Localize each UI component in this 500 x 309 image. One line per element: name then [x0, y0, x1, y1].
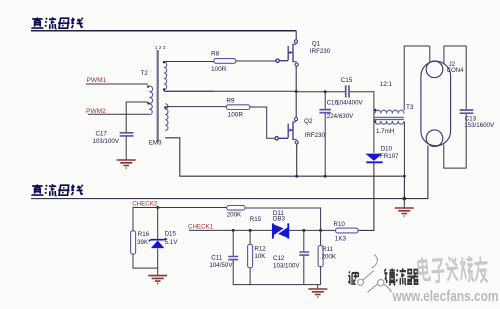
capacitor C17	[120, 133, 134, 136]
wire: bus drop to Q1 drain	[295, 31, 297, 40]
wire R9 to Q2 gate	[250, 107, 275, 138]
svg-text:T3: T3	[406, 104, 414, 111]
title DC bus (top) 直流母线	[31, 17, 82, 29]
wire T3 primary right up to lamp	[404, 46, 430, 110]
junction R11 top	[319, 229, 322, 232]
wire T3 secondary right down to rail	[403, 122, 405, 176]
lamp tube J2	[421, 61, 451, 146]
T2 primary winding lower (tap to PWM2)	[149, 104, 152, 115]
transistor Q2	[275, 121, 297, 140]
wire ground stub	[403, 199, 405, 208]
wire EM3 winding end to bottom rail	[165, 138, 404, 176]
wire D15 ground stub	[157, 268, 159, 275]
wire CHECK1	[189, 229, 336, 231]
T3 secondary winding	[375, 121, 404, 124]
pin dot T3 primary left	[374, 109, 376, 111]
svg-text:1K3: 1K3	[335, 235, 347, 242]
pin dot T2 feedback bottom	[163, 88, 165, 90]
wire lamp top-right lead to C13	[444, 46, 466, 109]
wire D10 cathode down to R10	[358, 163, 374, 230]
capacitor C11	[228, 257, 238, 260]
svg-text:R8: R8	[211, 51, 220, 58]
wire C11 to bottom	[233, 260, 320, 284]
svg-text:1.7mH: 1.7mH	[376, 128, 394, 135]
watermark 电子发烧友	[418, 256, 489, 283]
watermark logo circles	[355, 255, 391, 293]
junction R12	[249, 229, 252, 232]
wire C17 to ground	[125, 137, 127, 160]
diode D10 FR107	[365, 154, 382, 163]
junction C11	[232, 229, 235, 232]
wire R16 bottom	[133, 254, 158, 268]
svg-text:100R: 100R	[211, 66, 227, 73]
svg-text:5.1V: 5.1V	[165, 239, 179, 246]
svg-text:C12: C12	[273, 255, 285, 262]
svg-text:39K: 39K	[137, 239, 149, 246]
resistor R10	[336, 228, 358, 233]
svg-text:100R: 100R	[228, 112, 244, 119]
capacitor C16	[319, 110, 331, 113]
lamp filament bottom	[426, 130, 443, 147]
wire C16 drop	[324, 92, 326, 109]
svg-text:200K: 200K	[322, 254, 337, 261]
wire CHECK2	[133, 208, 321, 231]
svg-text:104/400V: 104/400V	[336, 99, 363, 106]
svg-text:IRF230: IRF230	[305, 132, 326, 139]
svg-text:224/630V: 224/630V	[327, 113, 354, 120]
junction Q2 source rail	[295, 175, 298, 178]
svg-text:C17: C17	[96, 130, 108, 137]
ground (bottom RC)	[308, 289, 327, 297]
svg-text:www.elecfans.com: www.elecfans.com	[392, 289, 499, 305]
T2 primary winding upper (PWM1 to tap)	[149, 86, 152, 103]
wire mid node line (T2 tap wire to C15)	[164, 90, 345, 93]
diac D11 DB3	[272, 223, 289, 238]
capacitor C12	[299, 252, 309, 255]
lamp filament top	[426, 61, 443, 78]
T2 drive winding (to R9)	[165, 104, 168, 131]
ground (lamp return)	[395, 208, 414, 216]
wire drive winding to R9	[166, 106, 226, 108]
svg-text:R15: R15	[250, 216, 262, 223]
transformer T2 core	[157, 50, 159, 142]
svg-text:FR107: FR107	[380, 153, 399, 160]
junction D15 tap	[156, 206, 159, 209]
T2 feedback winding (to R8)	[164, 62, 167, 90]
inductor T3 primary winding	[375, 110, 404, 113]
svg-text:R9: R9	[226, 98, 235, 105]
svg-text:C15: C15	[341, 77, 353, 84]
pin dot T2 primary top	[147, 85, 149, 87]
svg-text:1 2 3: 1 2 3	[155, 45, 166, 51]
junction rail T3	[403, 175, 406, 178]
ground (D15/R16)	[148, 276, 167, 284]
wire C15 to T3	[350, 92, 374, 153]
resistor R15 (200K)	[227, 206, 245, 211]
pin circle Q1 source	[295, 63, 298, 66]
svg-text:104/50V: 104/50V	[209, 262, 233, 269]
svg-text:CHECK2: CHECK2	[132, 200, 158, 207]
svg-text:200K: 200K	[227, 212, 242, 219]
junction C12	[302, 229, 305, 232]
transistor Q1	[276, 44, 297, 63]
svg-text:C11: C11	[211, 254, 222, 261]
svg-text:CON4: CON4	[447, 68, 464, 74]
pin dot T2 feedback top	[163, 61, 165, 63]
wire ground stub bottom	[317, 285, 319, 289]
wire: top DC bus line	[31, 30, 296, 32]
wire Q1 drain stub	[295, 43, 297, 44]
zener D15	[149, 208, 166, 269]
svg-text:103/100V: 103/100V	[273, 263, 300, 270]
resistor R9	[226, 105, 249, 110]
svg-text:R11: R11	[322, 246, 333, 253]
svg-text:103/100V: 103/100V	[93, 138, 120, 145]
svg-text:DB3: DB3	[273, 216, 286, 223]
wire C16 to rail	[324, 113, 326, 176]
resistor R12	[248, 230, 253, 284]
svg-text:Q2: Q2	[304, 118, 313, 125]
svg-text:IRF230: IRF230	[310, 48, 331, 55]
svg-text:T2: T2	[141, 70, 149, 77]
wire C11 drop	[232, 230, 234, 256]
junction mid node	[295, 90, 298, 93]
wire lamp bottom-left lead to ground bus	[31, 146, 428, 199]
wire C12 to bottom	[303, 256, 305, 285]
svg-text:R10: R10	[334, 221, 346, 228]
T3 core	[374, 117, 404, 119]
wire PWM1	[86, 83, 148, 85]
wire C13 bottom to lamp bottom-right lead	[444, 114, 466, 168]
wire C12 drop	[303, 230, 305, 251]
junction ground bus	[403, 197, 407, 201]
capacitor C15	[346, 85, 349, 97]
resistor R16	[131, 231, 136, 254]
svg-text:D15: D15	[165, 231, 177, 238]
svg-text:EM3: EM3	[149, 140, 162, 147]
svg-text:153/1600V: 153/1600V	[464, 122, 495, 129]
svg-text:Q1: Q1	[312, 40, 321, 47]
resistor R11	[318, 230, 323, 284]
wire PWM2	[88, 113, 149, 115]
capacitor C13	[460, 110, 474, 113]
pin dot T2 drive top	[164, 106, 166, 108]
junction C16 rail	[324, 175, 327, 178]
ground (C17)	[117, 160, 136, 168]
wire Q2 source to rail	[296, 144, 298, 176]
svg-text:12:1: 12:1	[380, 81, 393, 88]
wire lamp top-left lead	[429, 46, 431, 63]
pin circle Q2 source	[295, 141, 298, 144]
svg-text:R16: R16	[138, 231, 150, 238]
svg-text:R12: R12	[254, 245, 266, 252]
resistor R8	[214, 59, 236, 64]
svg-text:PWM1: PWM1	[87, 77, 107, 84]
pin circle Q2 drain	[294, 118, 297, 121]
wire winding top to R8	[164, 61, 214, 63]
wire: T2 center tap to C17	[126, 102, 148, 132]
pin dot T3 secondary left	[374, 120, 376, 122]
svg-text:10K: 10K	[254, 253, 266, 260]
svg-text:D10: D10	[381, 146, 393, 153]
pin circle Q1 drain	[294, 40, 297, 43]
wire rail corner down to ground bus	[403, 176, 405, 198]
title DC bus (bottom) 直流母线	[31, 184, 82, 196]
svg-text:CHECK1: CHECK1	[188, 223, 214, 230]
caption 调光镇流器	[348, 268, 418, 285]
junction C16 tap	[324, 90, 327, 93]
wire Q1 source to Q2 drain	[295, 66, 297, 118]
pin dot T2 primary tap	[147, 102, 149, 104]
svg-text:J2: J2	[449, 62, 456, 68]
wire feedback winding to Q1 gate	[164, 61, 276, 91]
